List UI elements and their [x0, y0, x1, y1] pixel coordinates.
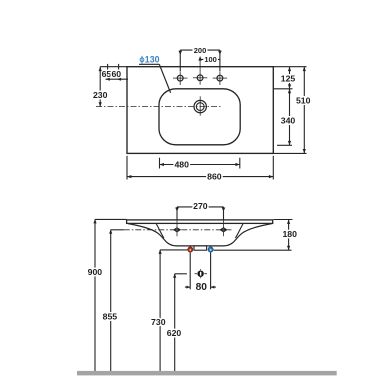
- faucet hole left: [173, 71, 187, 85]
- hole marker left: [174, 216, 181, 237]
- label D130 leader: [139, 55, 171, 93]
- bowl underside outline: [128, 224, 272, 246]
- drain outlet symbol: [195, 269, 207, 278]
- svg-text:130: 130: [145, 55, 160, 65]
- water supply blue (cold): [208, 247, 213, 252]
- water supply red (hot): [188, 247, 193, 252]
- bowl inner wall right: [235, 224, 243, 238]
- supply centerline right extension (to 180 dim): [214, 249, 292, 251]
- dimension 230: [93, 67, 108, 107]
- svg-text:510: 510: [296, 96, 311, 106]
- svg-text:620: 620: [167, 328, 182, 338]
- svg-text:80: 80: [196, 282, 208, 293]
- svg-text:200: 200: [194, 46, 207, 55]
- faucet hole right: [213, 71, 227, 85]
- svg-text:100: 100: [204, 55, 217, 64]
- hole marker right: [220, 216, 227, 237]
- svg-text:60: 60: [111, 69, 121, 79]
- drain outer circle: [194, 100, 206, 112]
- washbasin outer rectangle (top view): [127, 67, 273, 154]
- faucet hole center: [193, 60, 207, 85]
- bowl inner wall left: [156, 224, 164, 238]
- svg-text:65: 65: [102, 69, 112, 79]
- rim slab: [127, 220, 273, 224]
- faucet centerline (dash-dot through hole markers): [124, 229, 232, 231]
- svg-text:480: 480: [174, 160, 189, 170]
- drain centerline vertical: [199, 96, 201, 116]
- dimension 620: [167, 273, 187, 371]
- dimension 860: [127, 156, 273, 182]
- dimension 730: [151, 250, 187, 372]
- floor line: [77, 371, 337, 376]
- dimension 100: [198, 55, 220, 64]
- dimension 900: [88, 219, 127, 371]
- svg-text:730: 730: [151, 317, 166, 327]
- dimension 855: [103, 229, 124, 371]
- svg-text:230: 230: [93, 90, 108, 100]
- dimension 80: [185, 253, 216, 294]
- dimension 510: [296, 67, 311, 154]
- right side extension lines: [273, 66, 306, 68]
- svg-text:340: 340: [281, 116, 296, 126]
- svg-text:855: 855: [103, 311, 118, 321]
- dimension 480: [160, 158, 240, 170]
- svg-text:900: 900: [88, 267, 103, 277]
- basin bowl rounded rectangle: [159, 89, 240, 145]
- dimension 65 / 60 chain: [100, 64, 128, 81]
- drain tailpiece rectangle: [194, 246, 207, 250]
- drain inner circle: [196, 103, 204, 111]
- svg-text:860: 860: [207, 172, 222, 182]
- drain centerline horizontal (dash-dot): [96, 106, 221, 108]
- dimension 270: [175, 201, 225, 219]
- svg-text:270: 270: [193, 201, 208, 211]
- dimension 125 / 340 chain line: [281, 67, 296, 146]
- svg-text:180: 180: [282, 229, 297, 239]
- svg-text:125: 125: [281, 73, 296, 83]
- dimension 200: [178, 46, 221, 71]
- dimension 180: [274, 220, 298, 251]
